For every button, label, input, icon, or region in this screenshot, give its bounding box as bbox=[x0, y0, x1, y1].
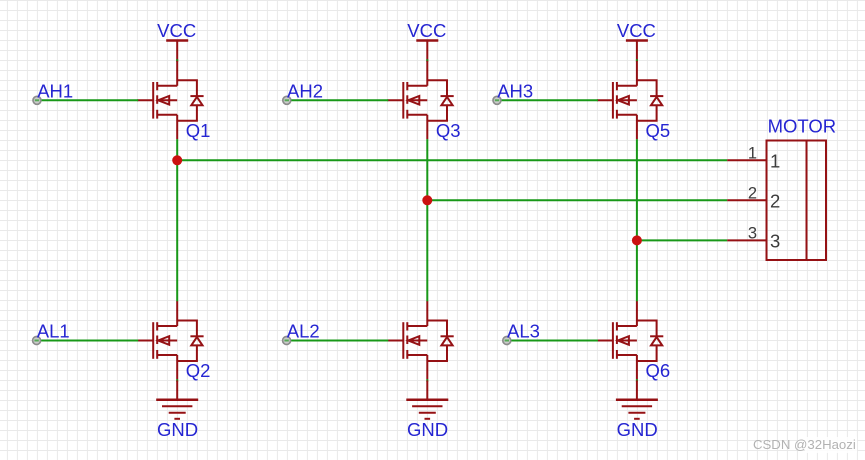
svg-text:Q2: Q2 bbox=[186, 360, 211, 381]
transistor Q3 bbox=[387, 61, 453, 139]
ground GND 3 label bbox=[617, 419, 658, 440]
svg-text:VCC: VCC bbox=[157, 20, 196, 41]
transistor Q1 label bbox=[186, 120, 211, 141]
transistor Q5 label bbox=[646, 120, 671, 141]
connector MOTOR pin 2 number bbox=[748, 184, 757, 202]
pin junction tick Q-GND col3 bbox=[636, 379, 638, 382]
transistor Q2 bbox=[137, 301, 203, 379]
ground symbol 1 bbox=[156, 380, 198, 418]
transistor Q3 label bbox=[436, 120, 461, 141]
power VCC 2 label bbox=[407, 20, 446, 41]
connector MOTOR pin 3 stub bbox=[727, 239, 766, 241]
svg-text:AL2: AL2 bbox=[287, 321, 320, 342]
wire phase 2 vertical bbox=[426, 139, 428, 301]
wire AL3 to gate of Q6 bbox=[511, 340, 598, 342]
pin junction tick Q-GND col2 bbox=[426, 379, 428, 382]
svg-text:2: 2 bbox=[748, 184, 757, 202]
wire phase 1 to MOTOR pin 1 bbox=[177, 159, 727, 161]
svg-text:1: 1 bbox=[748, 144, 757, 162]
svg-text:2: 2 bbox=[770, 190, 780, 211]
svg-text:CSDN @32Haozi: CSDN @32Haozi bbox=[753, 437, 856, 452]
input pin AH1 bbox=[33, 96, 41, 104]
transistor Q4 bbox=[387, 301, 453, 379]
svg-text:MOTOR: MOTOR bbox=[768, 116, 837, 137]
connector MOTOR pin 1 name bbox=[770, 150, 780, 171]
wire AH3 to gate of Q5 bbox=[502, 99, 598, 101]
transistor Q6 bbox=[597, 301, 663, 379]
input pin AL2 bbox=[283, 337, 291, 345]
svg-text:Q6: Q6 bbox=[646, 360, 671, 381]
pin junction tick Q-GND col1 bbox=[176, 379, 178, 382]
svg-text:3: 3 bbox=[748, 224, 757, 242]
power VCC 2 symbol bbox=[416, 41, 438, 61]
junction node phase 1 bbox=[172, 155, 182, 165]
transistor Q2 label bbox=[186, 360, 211, 381]
svg-text:AH1: AH1 bbox=[37, 80, 73, 101]
net label AL2 bbox=[287, 321, 320, 342]
connector MOTOR pin 2 name bbox=[770, 190, 780, 211]
input pin AH3 bbox=[493, 96, 501, 104]
svg-text:Q5: Q5 bbox=[646, 120, 671, 141]
svg-text:AL1: AL1 bbox=[37, 321, 70, 342]
ground symbol 2 bbox=[406, 380, 448, 418]
net label AL1 bbox=[37, 321, 70, 342]
net label AL3 bbox=[507, 321, 540, 342]
svg-text:Q1: Q1 bbox=[186, 120, 211, 141]
input pin AL3 bbox=[503, 337, 511, 345]
power VCC 3 label bbox=[617, 20, 656, 41]
connector MOTOR pin 1 number bbox=[748, 144, 757, 162]
power VCC 3 symbol bbox=[626, 41, 648, 61]
svg-text:GND: GND bbox=[407, 419, 448, 440]
svg-text:3: 3 bbox=[770, 231, 780, 252]
pin junction tick VCC-Q col2 bbox=[426, 59, 428, 62]
net label AH3 bbox=[497, 80, 533, 101]
wire AL1 to gate of Q2 bbox=[41, 340, 138, 342]
connector MOTOR pin 3 name bbox=[770, 231, 780, 252]
wire AH1 to gate of Q1 bbox=[42, 99, 139, 101]
svg-text:AH3: AH3 bbox=[497, 80, 533, 101]
svg-text:VCC: VCC bbox=[407, 20, 446, 41]
watermark backdrop bbox=[805, 437, 857, 453]
wire phase 1 vertical bbox=[176, 139, 178, 301]
svg-text:AL3: AL3 bbox=[507, 321, 540, 342]
ground GND 1 label bbox=[157, 419, 198, 440]
ground GND 2 label bbox=[407, 419, 448, 440]
power VCC 1 symbol bbox=[166, 41, 188, 61]
input pin AL1 bbox=[33, 337, 41, 345]
transistor Q6 label bbox=[646, 360, 671, 381]
net label AH2 bbox=[287, 80, 323, 101]
wire AL2 to gate of Q4 bbox=[291, 340, 388, 342]
transistor Q1 bbox=[137, 61, 203, 139]
ground symbol 3 bbox=[616, 380, 658, 418]
wire phase 3 to MOTOR pin 3 bbox=[637, 239, 727, 241]
watermark text bbox=[753, 437, 856, 452]
connector MOTOR pin 1 stub bbox=[727, 159, 766, 161]
svg-text:AH2: AH2 bbox=[287, 80, 323, 101]
svg-text:VCC: VCC bbox=[617, 20, 656, 41]
wire phase 3 vertical bbox=[636, 139, 638, 301]
connector MOTOR body bbox=[767, 141, 827, 261]
wire AH2 to gate of Q3 bbox=[291, 99, 388, 101]
svg-text:GND: GND bbox=[157, 419, 198, 440]
connector MOTOR label bbox=[768, 116, 837, 137]
svg-text:1: 1 bbox=[770, 150, 780, 171]
power VCC 1 label bbox=[157, 20, 196, 41]
pin junction tick VCC-Q col1 bbox=[176, 59, 178, 62]
pin junction tick VCC-Q col3 bbox=[636, 59, 638, 62]
junction node phase 3 bbox=[632, 235, 642, 245]
net label AH1 bbox=[37, 80, 73, 101]
connector MOTOR pin 2 stub bbox=[727, 199, 766, 201]
wire phase 2 to MOTOR pin 2 bbox=[427, 199, 727, 201]
connector MOTOR pin 3 number bbox=[748, 224, 757, 242]
svg-text:GND: GND bbox=[617, 419, 658, 440]
transistor Q5 bbox=[597, 61, 663, 139]
input pin AH2 bbox=[283, 96, 291, 104]
svg-text:Q3: Q3 bbox=[436, 120, 461, 141]
junction node phase 2 bbox=[422, 195, 432, 205]
